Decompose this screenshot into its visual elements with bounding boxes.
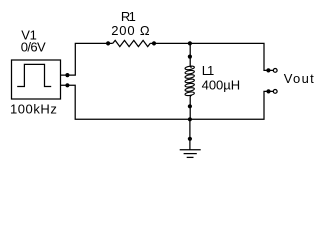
- junction dot R1 right: [152, 41, 156, 45]
- wire bottom rail junction to ground: [189, 119, 191, 149]
- junction dot L1 bottom pin: [188, 104, 192, 108]
- resistor R1 zigzag: [113, 40, 151, 46]
- junction dot bottom rail node: [188, 117, 192, 121]
- wire top rail junction down to L1: [190, 43, 192, 67]
- inductor L1 coil turn 2: [185, 70, 195, 75]
- inductor L1 coil turn 4: [185, 79, 195, 84]
- svg-text:100kHz: 100kHz: [10, 102, 57, 117]
- ground symbol: [180, 149, 201, 151]
- inductor L1 coil turn 3: [185, 74, 195, 79]
- voltage source V1 box: [12, 60, 61, 99]
- junction dot ground pin: [188, 137, 192, 141]
- svg-text:400µH: 400µH: [202, 77, 241, 92]
- inductor L1 coil turn 5: [185, 83, 195, 88]
- inductor L1 coil turn 6: [185, 87, 195, 92]
- junction dot R1 left: [106, 41, 110, 45]
- junction dot V1 top terminal: [65, 73, 69, 77]
- junction dot top rail node: [188, 41, 192, 45]
- inductor L1 coil turn 1: [185, 66, 195, 71]
- junction dot V1 bottom terminal: [65, 83, 69, 87]
- junction dot Vout top: [266, 68, 270, 72]
- junction dot Vout bottom: [266, 89, 270, 93]
- wire Vout bottom terminal down to bottom rail and back to V1: [61, 85, 274, 119]
- Vout terminal circle top: [273, 69, 277, 73]
- svg-text:L1: L1: [202, 63, 214, 78]
- inductor L1 coil turn 7: [185, 91, 195, 96]
- Vout terminal circle bottom: [273, 90, 277, 94]
- wire V1 top terminal to top rail: [61, 43, 113, 75]
- svg-text:Vout: Vout: [284, 71, 315, 86]
- svg-text:0/6V: 0/6V: [21, 39, 46, 54]
- svg-text:200 Ω: 200 Ω: [111, 23, 150, 38]
- wire L1 bottom to bottom rail: [190, 95, 192, 119]
- wire R1 to right corner and down to Vout top terminal: [150, 43, 273, 70]
- junction dot L1 top pin: [188, 55, 192, 59]
- V1 square-wave glyph: [17, 64, 51, 86]
